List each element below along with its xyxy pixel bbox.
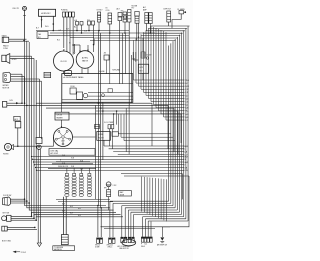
svg-text:DOME: DOME xyxy=(95,247,100,249)
svg-text:CIG LTR: CIG LTR xyxy=(12,8,19,10)
svg-text:COIL: COIL xyxy=(106,10,110,12)
svg-text:RLY: RLY xyxy=(38,37,41,39)
svg-text:B-L: B-L xyxy=(74,27,77,29)
svg-text:KEY SW: KEY SW xyxy=(3,213,10,215)
svg-text:B-4: B-4 xyxy=(145,244,148,246)
svg-text:W-B: W-B xyxy=(62,155,65,157)
svg-text:BODY GND: BODY GND xyxy=(2,241,12,243)
svg-text:FILTER: FILTER xyxy=(98,137,104,139)
svg-text:DIST: DIST xyxy=(61,141,65,143)
svg-text:HORN RLY: HORN RLY xyxy=(41,13,51,15)
svg-text:DEF RLY: DEF RLY xyxy=(164,9,172,11)
svg-text:A: INSTRUMENT PANEL: A: INSTRUMENT PANEL xyxy=(64,76,84,79)
svg-text:DOOR SW: DOOR SW xyxy=(3,195,12,197)
svg-text:FLT: FLT xyxy=(132,8,135,10)
svg-text:ALTER-: ALTER- xyxy=(82,57,89,60)
svg-text:FUSE A: FUSE A xyxy=(61,9,68,12)
svg-text:ST RLY: ST RLY xyxy=(97,10,104,12)
svg-text:FUSE BLOCK: FUSE BLOCK xyxy=(58,166,69,168)
svg-text:IG C-F TEMP: IG C-F TEMP xyxy=(104,122,113,124)
svg-text:NOISE: NOISE xyxy=(98,134,104,136)
svg-text:L: L xyxy=(184,149,185,151)
svg-text:TO ENGINE: TO ENGINE xyxy=(54,247,64,249)
svg-text:NATOR: NATOR xyxy=(82,59,89,62)
svg-text:WH-16: WH-16 xyxy=(95,245,100,247)
svg-text:W-B: W-B xyxy=(71,166,74,168)
svg-text:W-B: W-B xyxy=(71,158,74,160)
svg-text:SPKR: SPKR xyxy=(12,59,18,61)
svg-text:W-B: W-B xyxy=(62,163,65,165)
svg-text:CHOKE: CHOKE xyxy=(57,114,63,116)
svg-text:J/B: J/B xyxy=(104,53,106,55)
svg-text:HORN: HORN xyxy=(3,154,9,156)
svg-text:B: B xyxy=(60,160,61,162)
svg-text:DIST (IIA): DIST (IIA) xyxy=(51,150,59,153)
svg-text:P: P xyxy=(141,244,142,246)
svg-text:WH-9: WH-9 xyxy=(141,246,145,248)
svg-text:CLOCK: CLOCK xyxy=(60,61,67,63)
svg-text:B-W: B-W xyxy=(10,100,14,102)
svg-text:TO B-2: TO B-2 xyxy=(21,252,26,254)
svg-text:WH-15: WH-15 xyxy=(108,247,113,249)
svg-text:MOTOR: MOTOR xyxy=(3,87,10,89)
svg-text:G-W: G-W xyxy=(184,162,188,164)
svg-text:COND: COND xyxy=(3,48,9,50)
